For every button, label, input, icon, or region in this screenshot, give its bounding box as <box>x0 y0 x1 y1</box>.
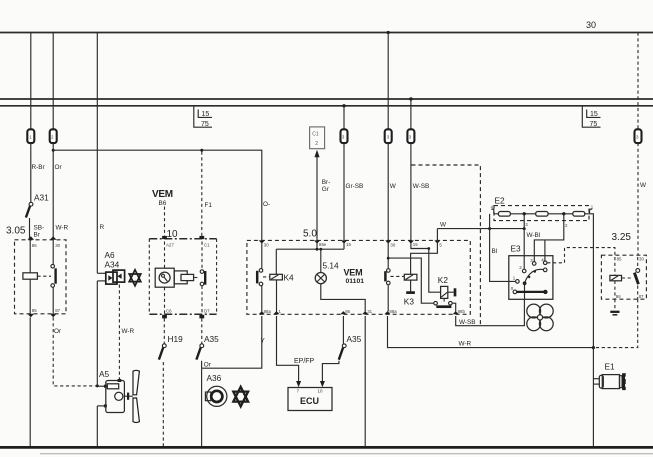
svg-text:A31: A31 <box>34 193 49 203</box>
connector box C1/2 <box>310 127 325 149</box>
svg-text:15: 15 <box>413 242 418 247</box>
wire Gr-SB below fuse x344 <box>343 143 345 241</box>
svg-text:2: 2 <box>315 141 318 147</box>
wire from bus15 to fuse x411 <box>410 99 412 129</box>
svg-text:R: R <box>100 224 105 231</box>
svg-text:W-R: W-R <box>122 328 135 335</box>
svg-text:3.25: 3.25 <box>612 232 632 243</box>
stub to connector A6/A34 upper <box>97 272 106 274</box>
wire from bus30 to fuse x53 <box>52 33 54 130</box>
VEM outline dashed box <box>412 165 481 326</box>
wire Br-Gr with arrow to C1 <box>314 150 319 241</box>
E2 pin 4 hook <box>491 205 494 214</box>
ECU box <box>288 388 332 411</box>
svg-text:W: W <box>440 222 447 229</box>
svg-text:R-Br: R-Br <box>32 164 46 171</box>
E3 contact 2 <box>519 265 526 273</box>
wire tap3 to E3 contact 2 <box>523 214 525 269</box>
bracket 15/75 right <box>582 106 600 128</box>
pin 15b top <box>408 240 418 246</box>
dashed wire E3 to 3.25 <box>547 248 615 263</box>
relay coil K2 <box>441 286 455 298</box>
resistor R3 <box>573 212 585 217</box>
E3 wiper arm <box>523 268 547 285</box>
wire junction to Y riser <box>202 316 262 368</box>
pin 88a bottom <box>259 309 272 314</box>
wire 88b to E3 output <box>456 299 525 325</box>
svg-text:85: 85 <box>617 256 622 261</box>
unit 10 box sides <box>149 239 216 314</box>
relay contact 3.05 <box>51 240 56 314</box>
svg-text:3.05: 3.05 <box>6 226 26 237</box>
svg-text:VEM: VEM <box>152 189 173 200</box>
svg-text:87: 87 <box>639 294 644 299</box>
E3 bottom bar <box>517 290 548 294</box>
wire from bus15 to fuse x344 <box>343 106 345 129</box>
svg-text:EP/FP: EP/FP <box>294 358 315 365</box>
E2 pin 1 hook <box>590 205 594 214</box>
wire Bl to E3 contact 1 <box>490 229 516 282</box>
svg-text:A36: A36 <box>207 373 222 383</box>
svg-text:87: 87 <box>55 308 60 313</box>
svg-text:A6: A6 <box>105 250 116 260</box>
arrow into ECU pin 7 <box>296 381 301 387</box>
svg-text:15: 15 <box>346 242 351 247</box>
svg-text:W: W <box>640 182 647 189</box>
svg-text:30: 30 <box>639 256 644 261</box>
pin 1 bottom <box>273 309 281 314</box>
svg-text:D7: D7 <box>204 308 210 313</box>
resistor R1 <box>498 212 510 217</box>
svg-text:85: 85 <box>32 308 37 313</box>
svg-text:ECU: ECU <box>300 396 319 406</box>
E2 tap 3 <box>523 212 529 227</box>
resistor R2 <box>536 212 548 217</box>
svg-text:A5: A5 <box>99 369 110 379</box>
wire 86e into box <box>316 243 318 249</box>
svg-text:Br: Br <box>34 232 41 239</box>
bracket 15/75 left <box>194 106 212 128</box>
junction on bus30 x388 <box>387 31 390 34</box>
relay contact K3-operated <box>385 243 390 312</box>
junction at x97 y386 <box>96 384 99 387</box>
E2 tap 2 <box>562 212 568 228</box>
svg-text:A35: A35 <box>347 334 362 344</box>
unit 10 box top edge <box>149 238 216 240</box>
svg-text:88b: 88b <box>458 309 466 314</box>
svg-text:Bl: Bl <box>492 248 498 255</box>
dashed wire W-R from connector <box>118 285 120 380</box>
node dots on K4 wire <box>316 248 323 251</box>
svg-text:01101: 01101 <box>346 278 365 285</box>
junction on bus15 x411 <box>409 97 412 100</box>
ground below 3.25 pin 86 <box>610 299 619 315</box>
fan blades A5 <box>133 370 139 422</box>
wire from bus30 to fuse x30 <box>30 33 32 130</box>
ignition lock symbol <box>155 242 174 314</box>
svg-text:Or: Or <box>204 362 212 369</box>
wire 5 to K3 coil <box>411 243 438 274</box>
sensor A36 <box>205 386 227 406</box>
bus 15 lower line <box>0 105 653 107</box>
svg-text:15: 15 <box>202 111 210 118</box>
svg-text:W: W <box>390 183 397 190</box>
wire R from bus30 down <box>96 33 98 274</box>
svg-text:K4: K4 <box>284 273 295 283</box>
svg-text:F1: F1 <box>205 202 213 209</box>
wire 15b to K2 coil <box>411 243 441 292</box>
label Br-Gr <box>322 179 331 193</box>
wire A35 to junction <box>201 361 203 368</box>
svg-text:5.14: 5.14 <box>323 261 340 271</box>
label SB-Br <box>34 225 45 239</box>
svg-text:Y: Y <box>261 338 266 345</box>
dashed wire 87 to W-R node <box>595 299 638 347</box>
wire 85 to ground bus <box>29 317 31 446</box>
svg-text:B6: B6 <box>159 200 167 207</box>
fuse 24 <box>50 129 57 143</box>
bottom ground bus <box>0 446 653 449</box>
fan switch E3 box <box>509 256 553 300</box>
pin C6 <box>162 308 172 318</box>
svg-text:VEM: VEM <box>344 268 363 278</box>
pin 86 of 3.05 <box>28 236 38 248</box>
switch A31 <box>26 202 33 239</box>
svg-text:88a: 88a <box>389 309 397 314</box>
svg-text:Br-: Br- <box>322 179 331 186</box>
star icon A36 <box>233 387 248 407</box>
svg-text:O-: O- <box>263 201 270 208</box>
stub to A5 lower <box>97 405 106 407</box>
relay contact K4 <box>257 243 263 312</box>
svg-text:Or: Or <box>54 328 62 335</box>
contact-coil link K3 <box>390 275 403 277</box>
pin 86e top <box>314 240 327 246</box>
svg-text:C6: C6 <box>166 308 172 313</box>
wire 15 into box <box>343 243 345 249</box>
svg-text:15: 15 <box>590 111 598 118</box>
switch A35 <box>196 318 203 359</box>
relay box 3.25 <box>601 255 646 299</box>
wire W below fuse x388 <box>387 143 389 241</box>
wire from bus30 to fuse x388 <box>387 33 389 130</box>
star icon A34 <box>129 270 141 286</box>
wire Or branch horizontal <box>53 150 262 240</box>
dashed wire B6 <box>164 207 166 239</box>
junction W-R / E1 riser <box>592 346 595 349</box>
switch 3.25 <box>634 257 639 299</box>
wire R continues below connector <box>96 281 98 386</box>
svg-text:SB-: SB- <box>34 225 45 232</box>
wire Y horizontal to A35 area done above; wire pin1 to ECU <box>277 316 299 382</box>
stub to connector A6/A34 lower <box>97 280 106 282</box>
dashed wire Or from 87 <box>53 317 96 386</box>
pin 5 top <box>434 240 442 247</box>
svg-text:88a: 88a <box>264 309 272 314</box>
connector A6/A34 <box>106 270 125 284</box>
svg-text:C1: C1 <box>204 242 210 247</box>
wire 31 to ground bus <box>364 316 366 446</box>
svg-text:30: 30 <box>264 242 269 247</box>
svg-text:86: 86 <box>32 243 37 248</box>
coil-contact link 3.05 <box>37 275 51 277</box>
fan icon <box>527 304 553 331</box>
wire to E3 contact 4 <box>544 240 546 261</box>
stubs to E1 <box>593 379 599 384</box>
pin dot on A5 motor top <box>118 379 122 382</box>
dashed wire F1 <box>201 152 203 239</box>
stub to A5 upper <box>97 385 106 387</box>
pin 88b bottom <box>453 309 466 314</box>
svg-text:75: 75 <box>590 121 598 128</box>
pin A27 <box>162 236 174 247</box>
wire W-SB below fuse x411 <box>410 143 412 241</box>
unit 10 box bottom edge <box>149 313 216 315</box>
svg-text:Or: Or <box>55 164 63 171</box>
fuse 3 <box>385 129 392 143</box>
fuse 30 <box>341 129 348 143</box>
pin 30b top <box>385 240 396 247</box>
svg-text:A35: A35 <box>204 334 219 344</box>
junction dot <box>427 247 430 250</box>
junction x53 y150 <box>52 149 55 152</box>
arrow into ECU pin 10 <box>320 381 325 387</box>
lamp bottom wire to pin 31 <box>321 284 365 312</box>
wire 88a2 down <box>388 316 594 348</box>
pin C1 <box>199 236 210 247</box>
faint page edge line <box>40 453 653 455</box>
pin 31 bottom <box>362 309 373 314</box>
wire up to E2 pin 4 <box>489 214 491 229</box>
wire R-Br below fuse x30 <box>30 143 32 202</box>
coil 3.25 <box>610 257 622 299</box>
fuse 1 <box>27 129 34 143</box>
svg-text:W-SB: W-SB <box>413 183 430 190</box>
wire down to A36 <box>201 368 203 446</box>
wire E2 pin1 to ground bus <box>590 214 594 446</box>
pin 86 bottom <box>340 309 350 314</box>
svg-text:75: 75 <box>201 121 209 128</box>
svg-text:Gr-SB: Gr-SB <box>346 183 364 190</box>
switch H19 <box>159 318 166 446</box>
E2 wire <box>494 213 590 215</box>
wire W to E2 <box>436 229 438 243</box>
svg-text:Gr: Gr <box>322 186 330 193</box>
pin 30 of 3.05 <box>50 236 61 248</box>
coil-switch link 3.25 <box>622 277 631 279</box>
svg-text:C1: C1 <box>312 132 319 138</box>
svg-text:W-R: W-R <box>459 341 472 348</box>
junction at Bl riser <box>488 227 491 230</box>
fuse 35 <box>407 129 414 143</box>
svg-text:86e: 86e <box>319 242 327 247</box>
svg-text:E1: E1 <box>605 362 616 372</box>
pin D7 <box>199 308 210 318</box>
dashed wire from bus30 to fuse x638 <box>637 33 639 130</box>
switch A35b <box>339 344 346 360</box>
svg-text:W-SB: W-SB <box>459 319 476 326</box>
coil-contact link K4 <box>263 276 269 278</box>
svg-text:10: 10 <box>167 229 179 240</box>
relay coil K3 <box>404 274 417 292</box>
contact K2 horizontal <box>434 299 456 312</box>
svg-text:86: 86 <box>345 309 350 314</box>
wire tap2 down <box>534 214 564 262</box>
svg-text:5.0: 5.0 <box>303 229 317 240</box>
relay coil 3.05 <box>23 240 38 314</box>
svg-text:E3: E3 <box>511 244 522 254</box>
pin 88a2 bottom <box>384 309 397 314</box>
svg-text:30: 30 <box>55 243 60 248</box>
pin 15 top <box>341 240 352 246</box>
svg-text:10: 10 <box>318 388 323 393</box>
svg-text:A34: A34 <box>105 260 120 270</box>
lamp 5.14 <box>315 249 326 284</box>
svg-text:A27: A27 <box>166 242 174 247</box>
wire W horizontal <box>437 228 524 230</box>
pin 85 of 3.05 <box>28 308 38 317</box>
fan shaft A5 <box>124 393 132 400</box>
svg-text:30: 30 <box>390 242 395 247</box>
label VEM 01101 <box>344 268 365 286</box>
resistor pack E2 dashed box <box>494 206 589 221</box>
svg-text:86: 86 <box>616 294 621 299</box>
junction at E3 riser <box>523 227 526 230</box>
bus 30 <box>0 32 653 34</box>
motor A5 body <box>106 381 125 413</box>
E3 output wire inside box <box>524 283 526 299</box>
svg-text:30: 30 <box>586 20 596 30</box>
motor E1 <box>599 373 626 390</box>
junction pin30b branch <box>387 257 390 260</box>
junction on bus15 x344 <box>342 104 345 107</box>
svg-text:K2: K2 <box>438 275 449 285</box>
svg-text:K3: K3 <box>404 297 415 307</box>
svg-text:H19: H19 <box>168 334 184 344</box>
wire to K2 contact <box>388 258 433 303</box>
wire Or below fuse x53 <box>52 143 54 240</box>
E3 contact 0 <box>511 286 517 294</box>
A5 terminal dots <box>104 385 107 408</box>
svg-text:W-R: W-R <box>56 225 69 232</box>
junction F1 tap <box>200 149 203 152</box>
bus 15 upper line <box>0 98 653 100</box>
module box 5.0 <box>247 240 470 314</box>
svg-text:31: 31 <box>367 309 372 314</box>
svg-text:W-Bl: W-Bl <box>527 232 541 239</box>
ignition plug symbol <box>174 271 199 284</box>
pin 87 of 3.05 <box>50 308 61 317</box>
node wire to K4 coil <box>276 248 344 250</box>
wire A35b to ECU pin 10 <box>322 361 339 382</box>
wire R to ground bus <box>96 406 98 446</box>
ignition contact <box>200 242 205 314</box>
wire 86 to switch A35b <box>342 316 344 344</box>
E3 contact 1 <box>513 275 519 283</box>
pin 30 top <box>259 240 270 247</box>
E3 contact 4 <box>541 257 547 264</box>
E3 contact 3 <box>530 258 536 265</box>
fuse 36 <box>635 129 642 143</box>
relay box 3.05 <box>15 240 67 314</box>
dashed wire W below fuse x638 <box>637 143 639 255</box>
svg-text:E2: E2 <box>495 196 506 206</box>
relay coil K4 <box>270 249 283 311</box>
